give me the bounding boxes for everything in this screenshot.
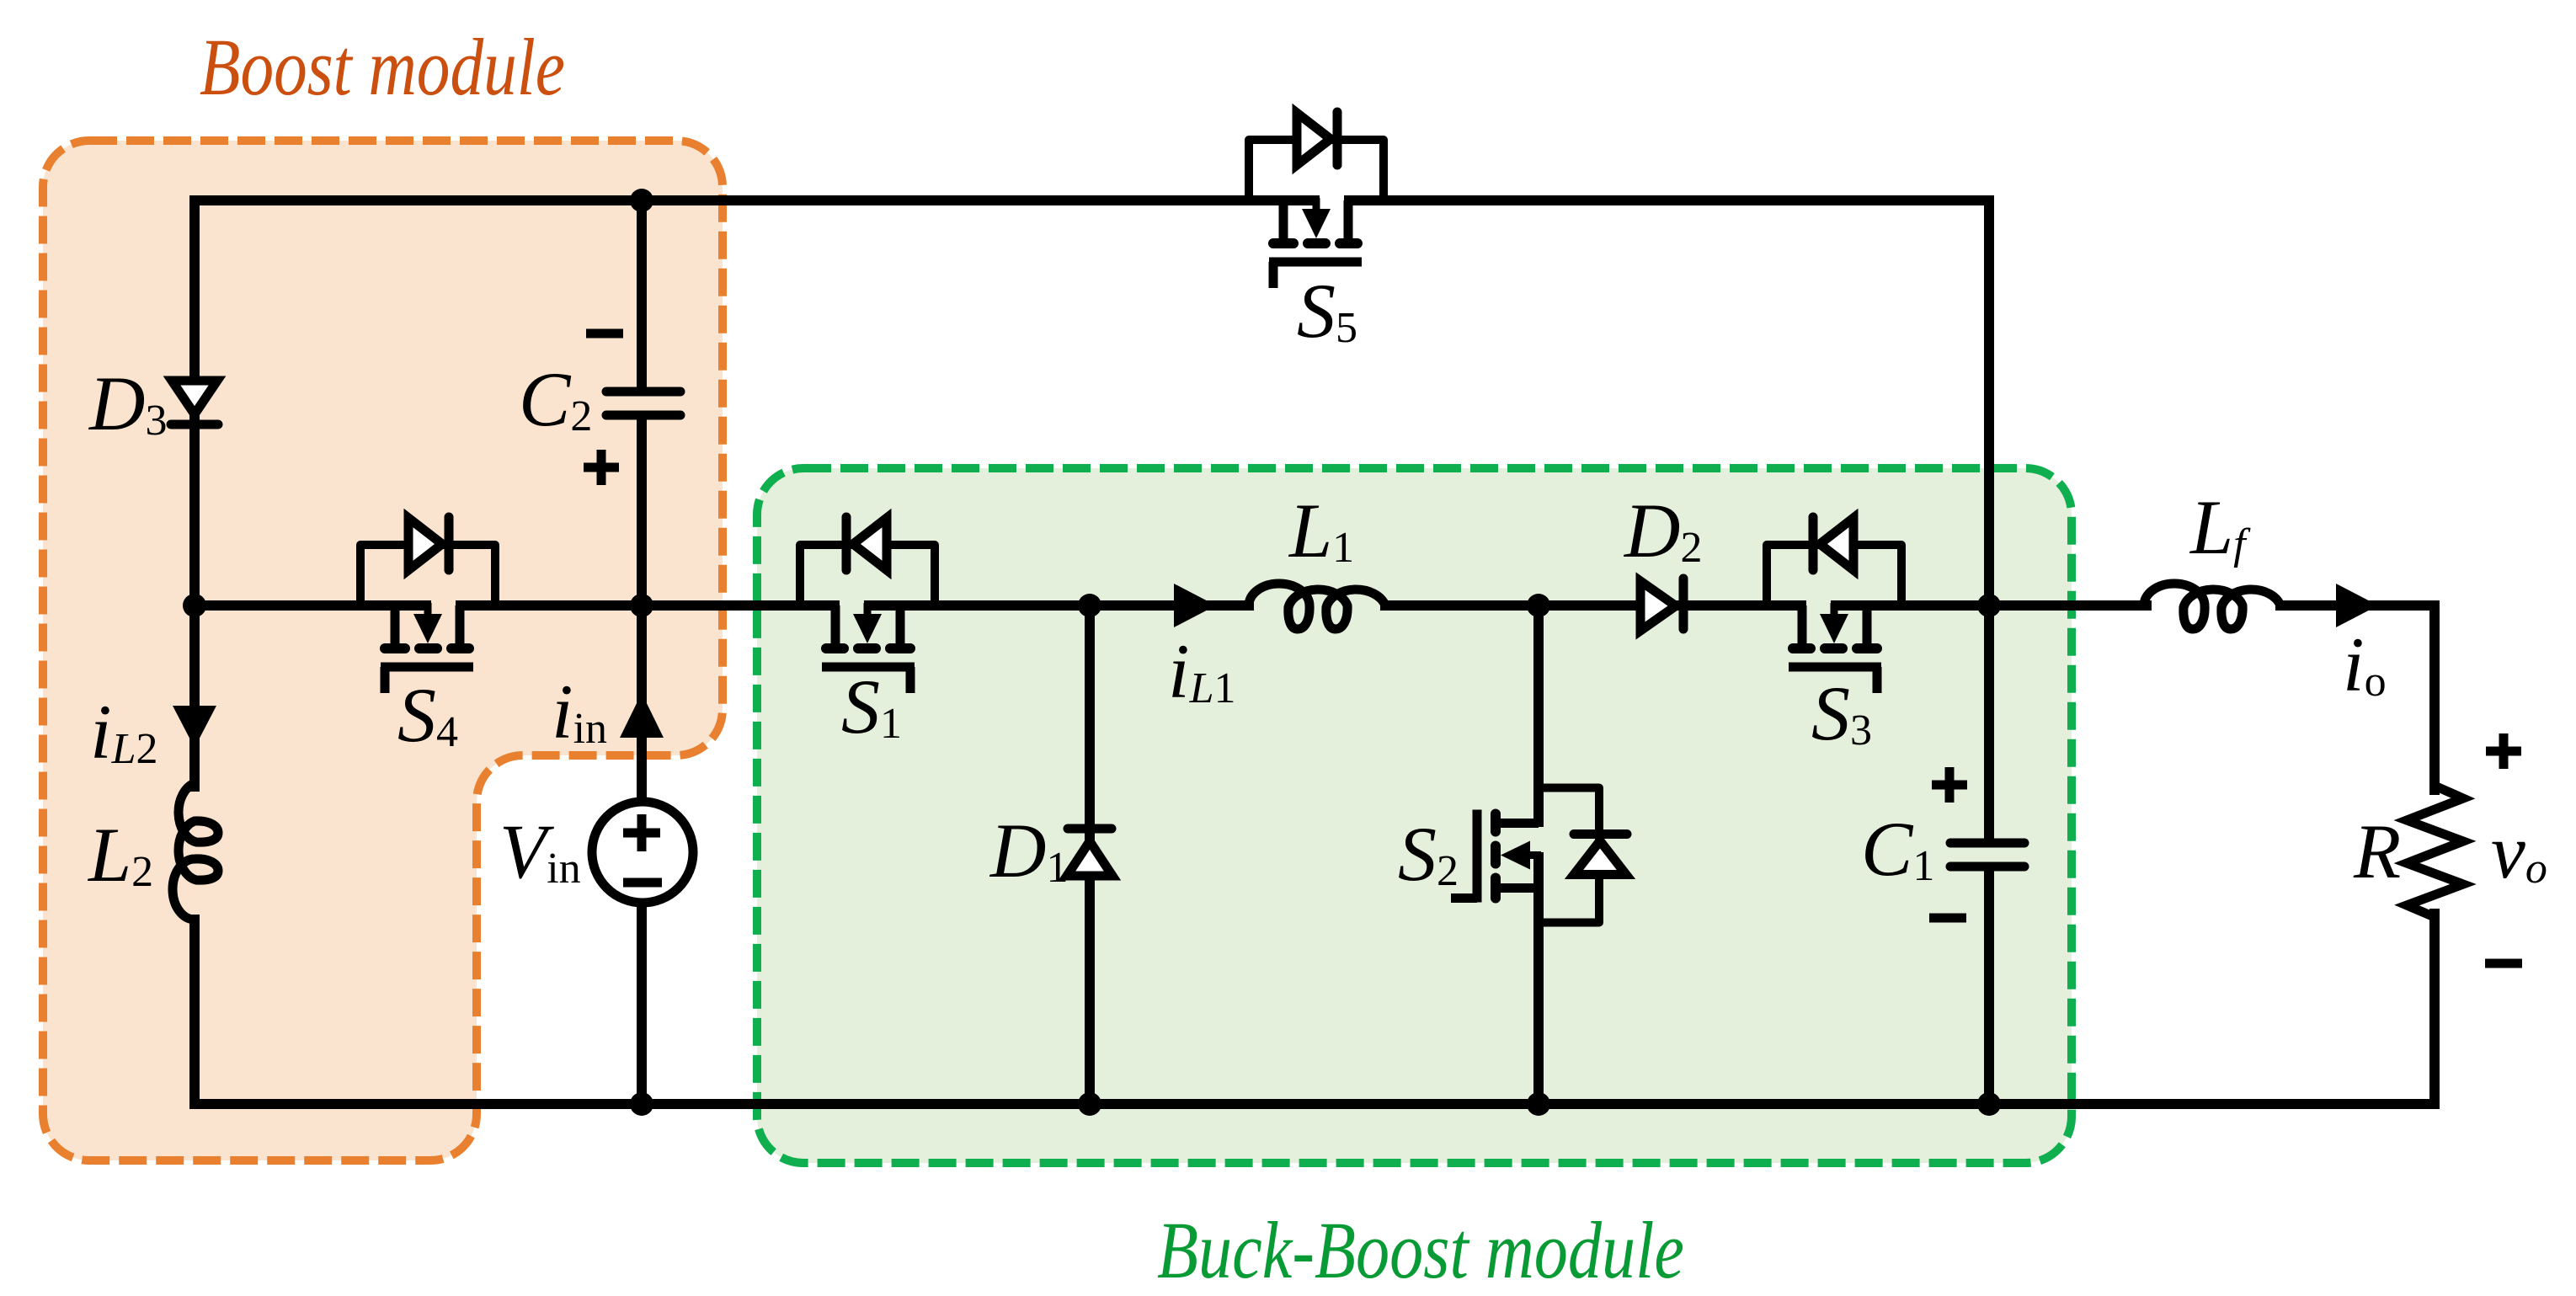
wire Vin branch lower [637,903,647,1104]
wire left branch bottom (L2 branch) [189,605,200,787]
C1 plus sign [1932,767,1967,803]
inductor L2 [173,783,218,920]
label S3 [1811,670,1872,756]
label L2 [87,812,153,898]
voltage source Vin [592,802,693,903]
wire mid rail: node A to S4 [195,600,426,611]
node: bottom rail / D1 [1078,1092,1101,1116]
diode D1 [1067,829,1112,876]
wire bottom rail [195,1099,2435,1109]
node: mid rail / D1 [1078,594,1101,617]
C1 minus sign [1929,914,1966,923]
wire C1 branch upper [1984,605,1994,839]
label R [2353,808,2401,894]
wire mid rail: node C1 to Lf [1989,600,2147,611]
svg-text:Buck-Boost module: Buck-Boost module [1157,1205,1684,1295]
label L1 [1288,488,1354,573]
node: bottom rail / Vin [630,1092,653,1116]
node: mid rail / C1 / top-rail drop [1977,594,2001,617]
svg-text:Boost module: Boost module [200,22,565,112]
Buck-Boost module title [1157,1205,1684,1295]
label i_L2 [90,689,157,775]
inductor Lf [2144,584,2280,629]
wire top rail left segment [195,195,1315,205]
wire R branch lower [2429,914,2440,1104]
arrow i_o (right) [2336,584,2378,627]
svg-text:R: R [2353,808,2401,894]
R plus sign [2486,733,2521,769]
label Lf [2189,484,2251,570]
node: mid rail / L1 / S2 [1527,594,1550,617]
node: mid rail / C2 / Vin [630,594,653,617]
wire mid rail: S4 to S1 [461,600,835,611]
transistor S1 (MOSFET with body diode) [800,517,935,693]
node: top rail / C2 [630,189,653,212]
Buck-Boost module shaded region (green dashed box) [757,468,2072,1163]
wire mid rail: S1 to L1 [869,600,1249,611]
transistor S3 (MOSFET with body diode) [1767,517,1901,693]
label S5 [1297,268,1357,354]
C2 minus sign [586,329,623,339]
resistor R [2407,786,2463,917]
label S4 [397,672,458,758]
node: bottom rail / S2 [1527,1092,1550,1116]
label v_o [2491,808,2547,894]
wire C1 branch lower [1984,871,1994,1104]
wire mid rail: Lf to output corner [2280,605,2435,790]
label D3 [88,360,167,446]
transistor S2 (vertical MOSFET with body diode) [1451,788,1627,923]
label i_in [552,669,607,755]
node: bottom rail / C1 [1977,1092,2001,1116]
arrow i_L1 (right) [1174,584,1216,627]
wire mid rail: L1 to S3 [1385,600,1801,611]
capacitor C2 [606,392,680,415]
wire L2 to bottom rail [189,920,200,1104]
Boost module title [200,22,565,112]
node: mid rail / D3 / L2 [183,594,206,617]
transistor S5 (MOSFET with body diode) [1249,112,1384,288]
wire S2 branch lower [1533,857,1544,1104]
transistor S4 (MOSFET with body diode) [360,517,495,693]
label Vin [499,808,581,894]
label i_L1 [1168,628,1235,714]
arrow i_in (up) [620,693,664,738]
wire D1 branch [1085,605,1095,1104]
capacitor C1 [1950,843,2024,867]
wire left branch top (D3 branch) [189,200,200,605]
label D1 [989,808,1068,893]
label C1 [1861,806,1934,892]
label D2 [1623,488,1702,573]
wire mid rail: S3 to node C1 [1836,600,1989,611]
label i_o [2343,621,2387,707]
wire C2 branch upper [637,200,647,387]
diode D2 [1640,579,1683,631]
diode D3 [171,381,218,424]
arrow i_L2 (down) [173,706,216,748]
label S1 [841,664,902,749]
label S2 [1398,811,1459,897]
Boost module shaded region (orange dashed box) [43,141,723,1160]
inductor L1 [1249,584,1385,629]
wire S2 branch upper [1533,605,1544,822]
wire Vin branch upper [637,605,647,802]
wire top rail right segment + corner down [1349,200,1989,605]
R minus sign [2485,959,2522,968]
label C2 [519,356,592,442]
wire C2 branch lower [637,419,647,605]
C2 plus sign [584,450,619,485]
